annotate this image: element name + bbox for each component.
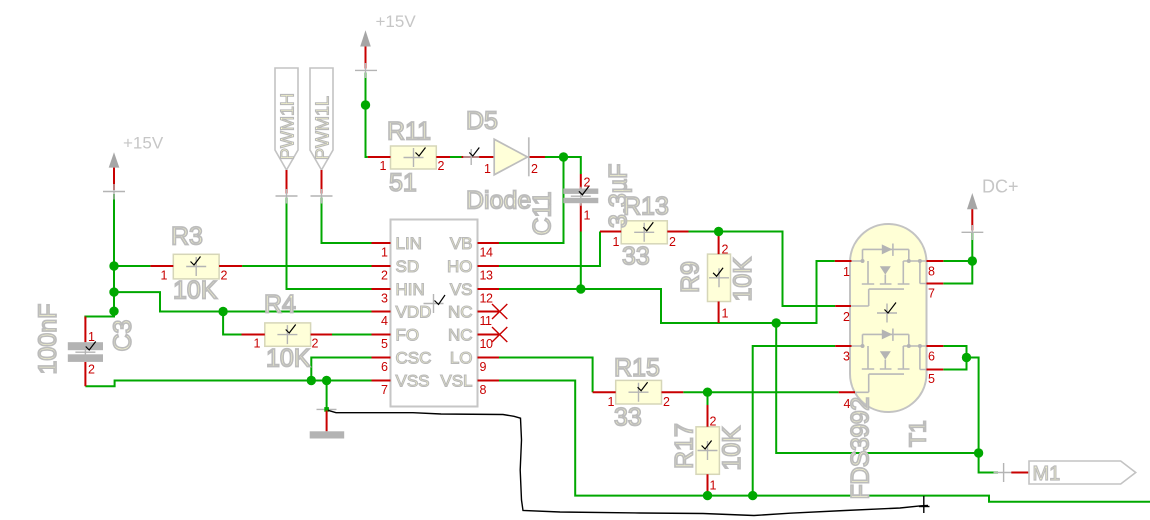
svg-text:7: 7 (381, 383, 388, 397)
wire R4 pin2 to FO (332, 334, 372, 336)
wire +15V jog to VDD line (114, 292, 372, 311)
transistor T1 pin stubs (835, 261, 944, 392)
resistor R3 (150, 254, 242, 282)
svg-text:8: 8 (480, 383, 487, 397)
svg-text:R4: R4 (264, 291, 296, 319)
resistor R15 (593, 380, 684, 408)
resistor R9 vertical (708, 232, 731, 324)
IC U1 left pin numbers (381, 246, 388, 398)
svg-text:R13: R13 (623, 193, 669, 221)
svg-text:VDD: VDD (396, 303, 432, 322)
power +15V symbol right (355, 12, 416, 78)
wire R11 pin2 to D5 anode (450, 156, 462, 158)
IC U1 right pin numbers (480, 246, 493, 398)
svg-text:13: 13 (480, 269, 493, 283)
svg-text:FO: FO (396, 326, 420, 345)
svg-text:3: 3 (843, 350, 850, 364)
svg-text:1: 1 (380, 159, 387, 173)
svg-text:10K: 10K (718, 426, 746, 471)
svg-text:7: 7 (928, 287, 935, 301)
svg-text:8: 8 (928, 265, 935, 279)
svg-text:5: 5 (928, 372, 935, 386)
svg-text:SD: SD (396, 257, 420, 276)
svg-text:VB: VB (450, 234, 473, 253)
svg-text:1: 1 (722, 307, 729, 321)
svg-text:2: 2 (710, 415, 717, 429)
connector flag M1 (994, 461, 1136, 485)
svg-text:2: 2 (438, 159, 445, 173)
svg-text:9: 9 (480, 360, 487, 374)
svg-text:R9: R9 (677, 261, 705, 293)
wire C11 bottom to VS line (580, 232, 582, 290)
svg-text:33: 33 (622, 243, 650, 271)
wire T1 pin3 to bottom bus (753, 346, 836, 496)
capacitor C11 (563, 174, 598, 232)
wire R3 pin2 to SD (242, 265, 371, 267)
wire pin5/6 node to M1 (967, 358, 999, 473)
wire net +15V left vertical (113, 194, 115, 311)
IC U1 gate driver box (391, 220, 478, 407)
resistor R13 (600, 221, 689, 249)
svg-text:VS: VS (450, 280, 473, 299)
svg-text:2: 2 (584, 176, 591, 190)
wire PWM1H to HIN (287, 198, 372, 290)
wire VSL to bottom bus (499, 381, 1150, 502)
wire ground drop (326, 381, 328, 409)
wire R17 top link (707, 392, 709, 405)
wire +15V to R3 pin1 (114, 265, 150, 267)
wire LO to R15 pin1 (499, 358, 593, 393)
svg-text:CSC: CSC (396, 349, 432, 368)
resistor R17 vertical (696, 405, 719, 496)
transistor T1 lower MOSFET internals (852, 329, 927, 393)
svg-text:Diode: Diode (466, 187, 531, 215)
svg-text:4: 4 (381, 314, 388, 328)
svg-text:6: 6 (381, 360, 388, 374)
svg-text:1: 1 (613, 235, 620, 249)
resistor R4 (242, 323, 333, 351)
svg-text:2: 2 (722, 243, 729, 257)
svg-text:NC: NC (448, 326, 473, 345)
svg-text:T1: T1 (905, 420, 931, 447)
IC U1 NC pin X marks (492, 304, 507, 342)
wire C3 bottom to VSS bus (85, 381, 371, 387)
svg-text:D5: D5 (466, 107, 498, 135)
svg-text:+15V: +15V (123, 134, 164, 153)
transistor T1 pin numbers (843, 265, 935, 412)
svg-text:M1: M1 (1033, 463, 1061, 485)
svg-text:VSS: VSS (396, 372, 430, 391)
svg-text:10K: 10K (266, 345, 311, 373)
power DC+ symbol (962, 177, 1019, 241)
svg-text:1: 1 (88, 330, 95, 344)
wire net +15V right to R11 pin1 (366, 73, 368, 158)
svg-text:100nF: 100nF (34, 304, 62, 375)
svg-text:1: 1 (161, 269, 168, 283)
svg-text:2: 2 (312, 337, 319, 351)
svg-text:1: 1 (381, 246, 388, 260)
svg-text:2: 2 (88, 363, 95, 377)
transistor T1 upper MOSFET internals (851, 244, 927, 307)
connector flag PWM1H (275, 68, 298, 204)
wire switch node down to M1 bus (776, 323, 978, 453)
svg-text:11: 11 (480, 314, 493, 328)
svg-text:R17: R17 (671, 423, 699, 469)
wire VDD branch down to R4 pin1 (223, 312, 241, 335)
wire HO to R13 pin1 (499, 232, 600, 267)
svg-text:5: 5 (381, 337, 388, 351)
IC U1 left pin stubs 1-7 (372, 243, 391, 381)
svg-text:+15V: +15V (376, 12, 417, 31)
svg-text:R3: R3 (171, 223, 203, 251)
svg-text:51: 51 (389, 169, 417, 197)
svg-text:2: 2 (843, 310, 850, 324)
resistor R11 (368, 146, 450, 173)
wire R13 pin2 gate1 net to T1 pin2 (689, 232, 836, 307)
IC U1 origin cross and checkmark (424, 294, 446, 313)
IC U1 left pin names (396, 234, 432, 391)
wire VB riser (499, 157, 564, 243)
ground symbol (310, 407, 345, 438)
connector flag PWM1L (310, 68, 333, 204)
svg-text:33: 33 (614, 404, 642, 432)
wire T1 pin7 loop (943, 261, 972, 284)
wire PWM1L to LIN (322, 198, 372, 244)
svg-text:DC+: DC+ (982, 177, 1019, 197)
svg-text:3: 3 (381, 292, 388, 306)
IC U1 right pin stubs 14-8 (478, 243, 500, 381)
svg-text:2: 2 (669, 235, 676, 249)
transistor T1 origin cross and checkmark (877, 303, 897, 323)
wire VS net to T1 pin1 (499, 261, 835, 323)
svg-text:HIN: HIN (396, 280, 425, 299)
power +15V symbol left (103, 134, 164, 200)
svg-text:1: 1 (710, 479, 717, 493)
svg-text:12: 12 (480, 292, 493, 306)
svg-text:6: 6 (928, 350, 935, 364)
svg-text:14: 14 (480, 246, 493, 260)
svg-text:NC: NC (448, 303, 473, 322)
svg-text:10K: 10K (173, 277, 218, 305)
wire T1 pin6 pin5 tie (943, 346, 966, 370)
svg-text:1: 1 (843, 265, 850, 279)
svg-text:PWM1L: PWM1L (313, 96, 333, 160)
svg-text:1: 1 (584, 209, 591, 223)
wire CSC loop to VSS bus (311, 358, 371, 381)
wire D5 cathode node (545, 157, 581, 174)
svg-text:2: 2 (663, 395, 670, 409)
diode D5 (462, 137, 546, 176)
wire +15V jog to C3 top (85, 311, 114, 319)
svg-text:R11: R11 (387, 118, 431, 146)
svg-text:R15: R15 (614, 354, 660, 382)
svg-text:2: 2 (381, 269, 388, 283)
svg-text:VSL: VSL (440, 372, 472, 391)
capacitor C3 (68, 317, 103, 387)
black hand-drawn net from ground (328, 410, 930, 515)
svg-text:10K: 10K (729, 257, 757, 302)
svg-text:1: 1 (254, 337, 261, 351)
wire R15 pin2 gate2 net to T1 pin4 (683, 391, 838, 393)
svg-text:2: 2 (221, 269, 228, 283)
svg-text:PWM1H: PWM1H (278, 93, 298, 160)
transistor T1 dual MOSFET capsule body (850, 224, 927, 412)
svg-text:2: 2 (531, 162, 538, 176)
svg-text:HO: HO (447, 257, 473, 276)
svg-text:1: 1 (484, 162, 491, 176)
svg-text:FDS3992: FDS3992 (847, 397, 875, 499)
wire DC+ to T1 pin8 (943, 233, 972, 262)
svg-text:10: 10 (480, 337, 493, 351)
svg-text:LO: LO (450, 349, 473, 368)
svg-text:C11: C11 (529, 191, 557, 235)
svg-text:LIN: LIN (396, 234, 422, 253)
svg-text:C3: C3 (109, 320, 137, 352)
IC U1 right pin names (440, 234, 472, 391)
